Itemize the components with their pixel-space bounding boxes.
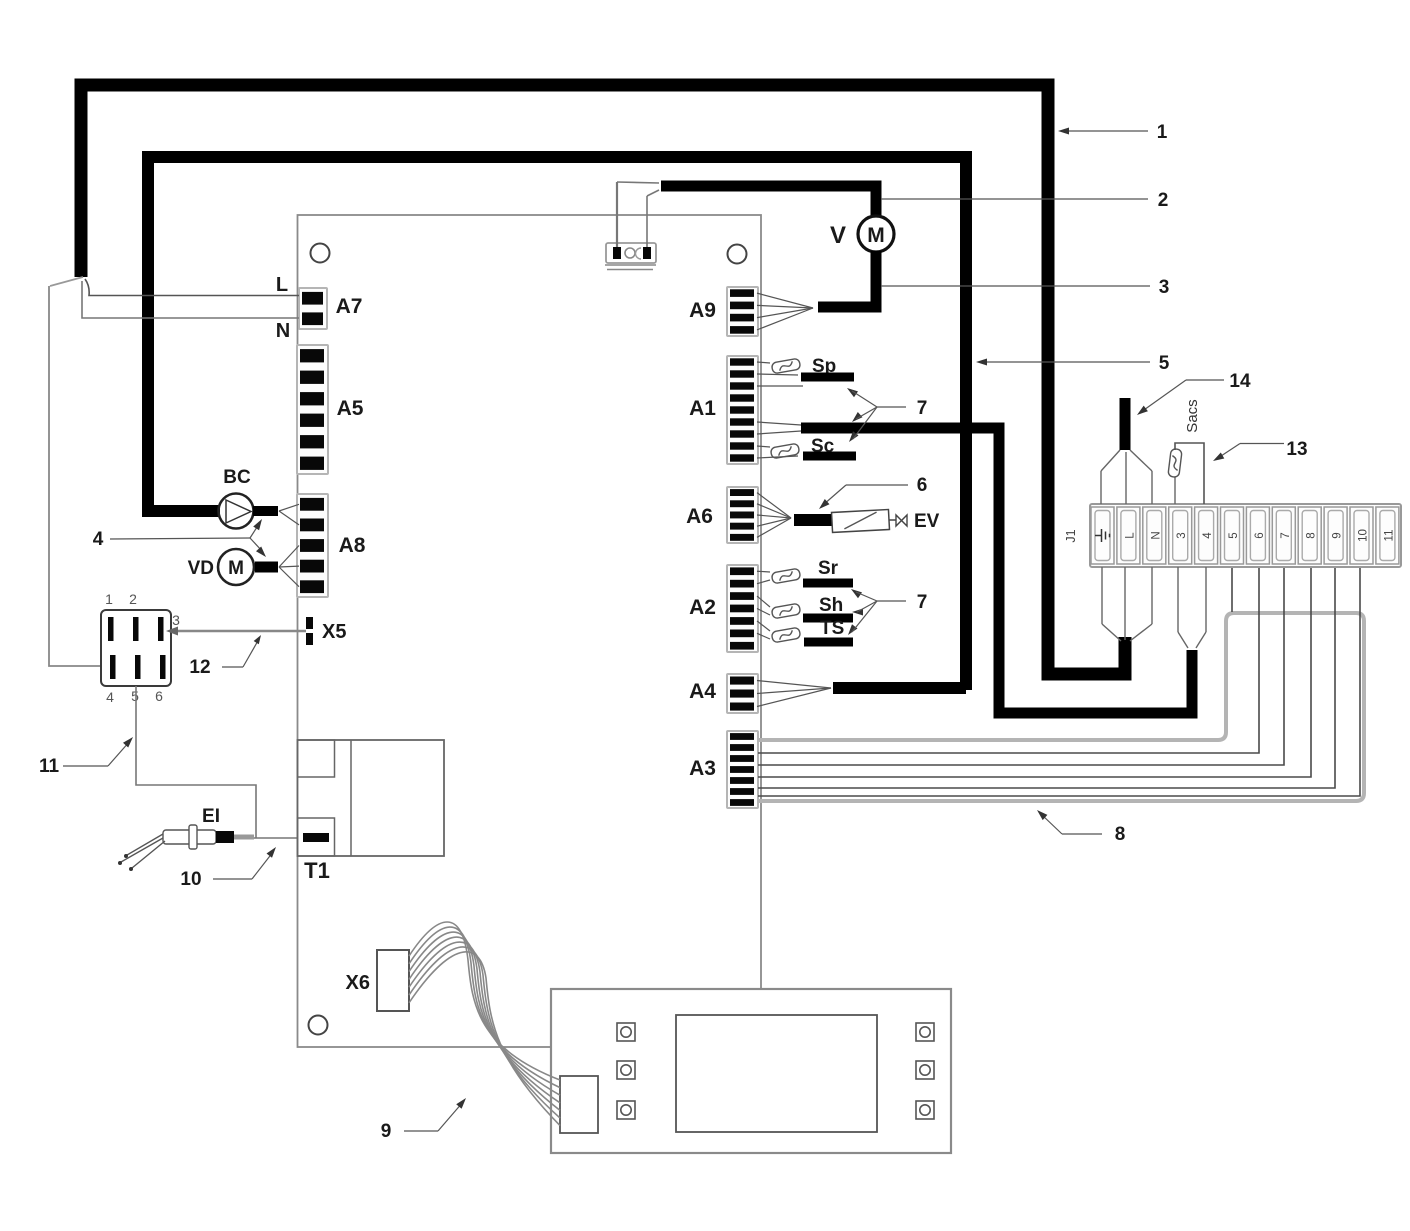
sensor Sh <box>757 596 770 607</box>
svg-text:3: 3 <box>1159 277 1170 298</box>
connector A7 block <box>299 288 327 329</box>
svg-text:4: 4 <box>93 529 104 550</box>
button 2 <box>617 1061 635 1079</box>
terminal J1-9 <box>1324 507 1347 564</box>
funnel bottom mains <box>1101 567 1103 624</box>
wire L to A7 <box>85 279 299 296</box>
label 3 <box>881 285 1150 287</box>
mounting hole bottom-left <box>309 1016 328 1035</box>
svg-text:8: 8 <box>1115 824 1126 845</box>
svg-text:A4: A4 <box>689 680 716 703</box>
svg-text:8: 8 <box>1306 532 1318 538</box>
svg-text:A7: A7 <box>336 295 363 318</box>
terminal strip J1 <box>1090 504 1401 567</box>
funnel J1 3-4 <box>1177 567 1179 632</box>
button 1 <box>617 1023 635 1041</box>
svg-text:V: V <box>830 222 846 249</box>
wire VD to A8 <box>255 562 278 573</box>
cable 8 grey loop <box>758 613 1364 801</box>
connector X6 <box>377 950 409 1011</box>
display connector <box>560 1076 598 1133</box>
electrode EI <box>163 825 216 849</box>
sensor TS <box>757 621 770 631</box>
svg-text:BC: BC <box>223 467 251 488</box>
terminal J1-L <box>1117 507 1140 564</box>
svg-text:5: 5 <box>131 688 139 704</box>
funnel top <box>1101 450 1120 471</box>
wire EV <box>794 514 833 526</box>
wire 12 X5 to pin3 <box>174 630 306 632</box>
svg-text:J1: J1 <box>1064 529 1078 542</box>
svg-text:1: 1 <box>1157 122 1168 143</box>
svg-text:5: 5 <box>1228 532 1240 538</box>
svg-text:4: 4 <box>1202 532 1214 539</box>
terminal J1-8 <box>1298 507 1321 564</box>
wire A1 to terminal block <box>757 385 803 387</box>
button 5 <box>916 1061 934 1079</box>
label 7 second <box>851 589 862 598</box>
display board <box>551 989 951 1153</box>
svg-text:Sr: Sr <box>818 558 839 579</box>
svg-text:X5: X5 <box>322 621 346 643</box>
mounting hole top-right <box>728 245 747 264</box>
wire V motor to A9 <box>818 251 876 307</box>
svg-text:6: 6 <box>1254 532 1266 538</box>
electrode prongs <box>127 834 163 855</box>
svg-text:1: 1 <box>105 591 113 607</box>
connector A1 block <box>727 356 758 464</box>
wire Sp <box>801 373 854 382</box>
button 4 <box>916 1023 934 1041</box>
fuse Sacs <box>1174 477 1176 504</box>
wedge A4 <box>757 681 831 689</box>
svg-text:9: 9 <box>1332 532 1344 538</box>
connector X5 <box>306 617 313 629</box>
svg-text:T1: T1 <box>304 858 330 883</box>
svg-text:12: 12 <box>189 657 210 678</box>
terminal J1-N <box>1143 507 1166 564</box>
svg-text:A8: A8 <box>339 534 366 557</box>
svg-text:N: N <box>1150 531 1162 539</box>
wedge A9 <box>757 293 813 308</box>
svg-text:L: L <box>1124 532 1136 539</box>
svg-text:EI: EI <box>202 806 220 827</box>
svg-text:A1: A1 <box>689 397 716 420</box>
wire 5 cable <box>148 157 966 690</box>
wire 2 fan motor supply <box>661 186 876 217</box>
connector 11 six-pin plug <box>101 610 171 686</box>
wire mains split <box>50 277 83 286</box>
pump BC <box>219 494 254 529</box>
jumper X4 <box>606 243 656 263</box>
svg-text:9: 9 <box>381 1121 392 1142</box>
svg-text:X6: X6 <box>346 972 370 994</box>
wire A4 to wire5 <box>833 682 966 694</box>
terminal J1-earth <box>1091 507 1114 564</box>
connector A9 block <box>727 287 758 336</box>
valve EV <box>832 509 890 532</box>
label 1 <box>1062 130 1148 132</box>
svg-text:3: 3 <box>1176 532 1188 538</box>
connector A8 block <box>297 494 328 597</box>
terminal J1-5 <box>1221 507 1244 564</box>
svg-text:N: N <box>276 320 290 342</box>
svg-text:11: 11 <box>39 756 60 777</box>
wire Sc <box>803 452 856 461</box>
svg-text:A2: A2 <box>689 596 716 619</box>
svg-text:A6: A6 <box>686 505 713 528</box>
mounting hole top-left <box>311 244 330 263</box>
svg-text:TS: TS <box>820 618 844 639</box>
terminal J1-3 <box>1169 507 1192 564</box>
wire pin5 to ignition <box>136 686 256 838</box>
connector A6 block <box>727 487 758 543</box>
svg-text:M: M <box>228 558 244 579</box>
sensor Sp <box>757 362 770 363</box>
svg-text:EV: EV <box>914 511 940 532</box>
button 3 <box>617 1101 635 1119</box>
wire A3 pin3 to J1-7 <box>758 567 1284 765</box>
wire A3 pin4 to J1-8 <box>758 567 1311 777</box>
button 6 <box>916 1101 934 1119</box>
sensor Sc <box>757 446 770 447</box>
wire A3 pin2 to J1-6 <box>758 567 1259 753</box>
svg-text:10: 10 <box>180 869 201 890</box>
connector A2 block <box>727 565 758 652</box>
label 2 <box>881 198 1148 200</box>
svg-text:7: 7 <box>917 592 928 613</box>
svg-text:4: 4 <box>106 689 114 705</box>
wire J1-5 stub <box>1231 567 1233 612</box>
svg-text:7: 7 <box>1280 532 1292 538</box>
wire A3 pin5 to J1-9 <box>758 567 1335 788</box>
svg-text:Sacs: Sacs <box>1184 399 1201 432</box>
ribbon cable 9 <box>409 922 560 1080</box>
svg-text:5: 5 <box>1159 353 1170 374</box>
label 5 <box>980 361 1150 363</box>
wire N to A7 <box>82 281 299 318</box>
svg-text:A5: A5 <box>337 397 364 420</box>
svg-text:A9: A9 <box>689 299 716 322</box>
wire to external connector pin 4 <box>49 286 108 666</box>
svg-text:13: 13 <box>1286 439 1307 460</box>
svg-text:3: 3 <box>172 612 180 628</box>
wedge A6 <box>757 493 791 518</box>
svg-text:L: L <box>276 274 288 296</box>
terminal J1-6 <box>1246 507 1269 564</box>
svg-text:Sh: Sh <box>819 595 843 616</box>
terminal J1-11 <box>1376 507 1399 564</box>
wire BC to A8 <box>253 506 278 516</box>
wire A3 pin6 to J1-10 <box>758 567 1360 796</box>
svg-text:2: 2 <box>129 591 137 607</box>
svg-text:M: M <box>867 224 885 247</box>
connector A5 block <box>297 345 328 474</box>
wire 14 stub <box>1120 398 1131 450</box>
motor VD <box>218 549 254 585</box>
transformer T1 <box>298 740 445 856</box>
svg-text:6: 6 <box>917 475 928 496</box>
sensor Sr <box>757 570 770 573</box>
svg-text:14: 14 <box>1229 371 1251 392</box>
display window <box>676 1015 877 1132</box>
connector A4 block <box>727 674 758 713</box>
svg-text:VD: VD <box>188 558 214 579</box>
svg-text:6: 6 <box>155 688 163 704</box>
svg-text:A3: A3 <box>689 757 716 780</box>
connector A3 block <box>727 731 758 808</box>
main control board outline <box>298 215 762 1047</box>
label 7 first <box>847 388 858 397</box>
svg-text:10: 10 <box>1358 529 1370 542</box>
terminal J1-7 <box>1272 507 1295 564</box>
svg-text:2: 2 <box>1158 190 1169 211</box>
wire 1 mains cable <box>81 85 1125 674</box>
motor V <box>858 216 894 252</box>
svg-text:7: 7 <box>917 398 928 419</box>
svg-text:11: 11 <box>1383 530 1395 542</box>
jumper wires to wire 2 <box>616 182 618 247</box>
terminal J1-4 <box>1195 507 1218 564</box>
terminal J1-10 <box>1350 507 1373 564</box>
